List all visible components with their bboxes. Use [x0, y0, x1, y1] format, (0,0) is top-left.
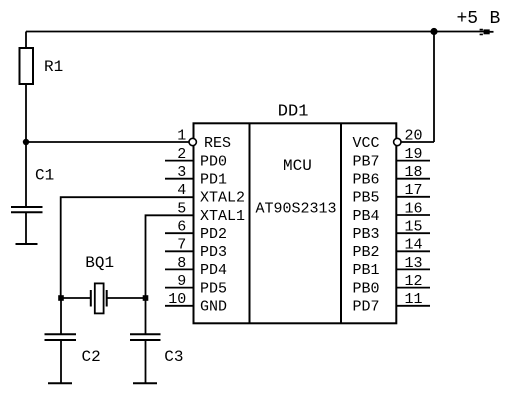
svg-text:XTAL2: XTAL2: [200, 190, 245, 207]
svg-text:7: 7: [177, 237, 186, 254]
svg-text:3: 3: [177, 164, 186, 181]
svg-text:10: 10: [168, 291, 186, 308]
svg-text:18: 18: [404, 164, 422, 181]
svg-text:PB5: PB5: [353, 190, 380, 207]
svg-text:PB6: PB6: [353, 172, 380, 189]
svg-text:5: 5: [177, 200, 186, 217]
svg-text:1: 1: [177, 128, 186, 145]
svg-text:15: 15: [404, 219, 422, 236]
svg-text:20: 20: [404, 128, 422, 145]
svg-text:PB3: PB3: [353, 226, 380, 243]
svg-text:4: 4: [177, 182, 186, 199]
svg-text:PD0: PD0: [200, 153, 227, 170]
svg-text:C1: C1: [35, 167, 54, 185]
svg-text:MCU: MCU: [283, 157, 312, 175]
svg-text:PD2: PD2: [200, 226, 227, 243]
svg-text:13: 13: [404, 255, 422, 272]
svg-text:PD3: PD3: [200, 244, 227, 261]
svg-text:PB2: PB2: [353, 244, 380, 261]
svg-text:6: 6: [177, 219, 186, 236]
svg-text:R1: R1: [44, 58, 63, 76]
svg-text:PB7: PB7: [353, 153, 380, 170]
svg-text:17: 17: [404, 182, 422, 199]
svg-text:AT90S2313: AT90S2313: [256, 201, 337, 218]
svg-text:C2: C2: [82, 348, 101, 366]
svg-text:8: 8: [177, 255, 186, 272]
svg-text:PD4: PD4: [200, 262, 227, 279]
svg-text:DD1: DD1: [278, 103, 309, 122]
svg-text:PB4: PB4: [353, 208, 380, 225]
svg-text:PD5: PD5: [200, 280, 227, 297]
svg-text:RES: RES: [204, 135, 231, 152]
svg-text:PB1: PB1: [353, 262, 380, 279]
svg-text:9: 9: [177, 273, 186, 290]
svg-text:PB0: PB0: [353, 280, 380, 297]
svg-text:GND: GND: [200, 299, 227, 316]
svg-text:11: 11: [404, 291, 422, 308]
svg-text:+5: +5: [457, 9, 479, 29]
svg-text:PD1: PD1: [200, 172, 227, 189]
svg-text:XTAL1: XTAL1: [200, 208, 245, 225]
svg-text:16: 16: [404, 200, 422, 217]
svg-text:C3: C3: [164, 348, 183, 366]
svg-text:14: 14: [404, 237, 422, 254]
svg-text:VCC: VCC: [353, 135, 380, 152]
svg-text:BQ1: BQ1: [85, 254, 114, 272]
svg-text:12: 12: [404, 273, 422, 290]
svg-text:В: В: [490, 9, 501, 29]
svg-text:PD7: PD7: [353, 299, 380, 316]
svg-text:19: 19: [404, 146, 422, 163]
svg-text:2: 2: [177, 146, 186, 163]
